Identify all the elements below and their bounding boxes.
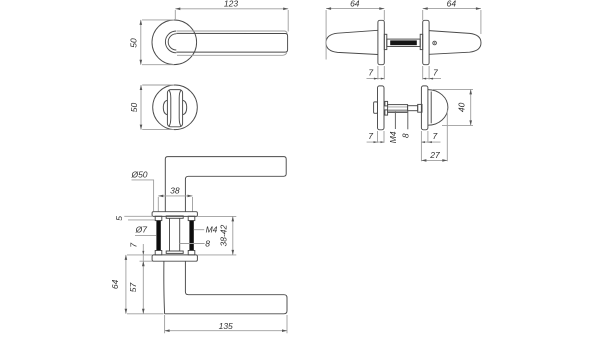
top rose plate section [152,212,197,217]
svg-text:Ø50: Ø50 [130,170,147,180]
set screw dot [433,41,437,45]
svg-text:8: 8 [400,133,410,138]
dim 7 wc left [367,131,384,143]
lever plan (top) [165,157,286,212]
svg-text:27: 27 [429,150,440,160]
label M4 (view4) [388,112,398,144]
svg-text:64: 64 [110,279,120,289]
dim 50 (lever rose) [129,20,174,65]
lever front (bottom) [164,261,287,314]
dim 50 (wc rose) [129,85,174,130]
right lever side [429,31,481,55]
dim 135 [165,315,287,333]
wc rose circle [153,85,198,130]
dim 7 wc right [421,131,440,161]
label 8 (section) [180,239,211,249]
dim 57 [128,261,145,314]
svg-text:M4: M4 [388,131,398,143]
rose circle [152,20,197,65]
svg-text:38-42: 38-42 [219,224,229,246]
emergency release tab [374,102,378,113]
bottom rose plate section [152,255,197,261]
dim 64 right [423,0,481,34]
right screw bolt [188,216,195,255]
label Ø50 [130,170,153,212]
dim 64 left [326,0,384,60]
wc right rose side [421,86,428,130]
thumbturn knob [163,90,186,127]
svg-text:64: 64 [350,0,360,8]
dim 38 [158,186,192,212]
label Ø7 [135,224,157,235]
dim 27 [421,110,447,162]
left lever side [326,30,378,54]
spindle bar [384,34,422,49]
dim 123 [175,0,288,32]
lever grip bar [176,31,287,55]
thumbturn dome [428,90,448,126]
dim 5 [114,216,155,221]
right rose side [423,20,429,64]
dim 40 [433,89,473,125]
left screw bolt [155,216,162,255]
svg-text:8: 8 [205,239,210,249]
svg-text:M4: M4 [206,224,218,234]
svg-text:7: 7 [368,67,373,77]
dim 7 left rose [367,66,385,80]
svg-text:7: 7 [433,67,438,77]
dim 38-42 [197,216,236,255]
spindle collar bottom [166,251,183,253]
svg-text:57: 57 [128,283,138,293]
svg-text:50: 50 [129,38,139,48]
spindle tube section [170,218,180,251]
dim 7 (plate) [129,243,153,266]
svg-text:123: 123 [224,0,238,8]
svg-text:7: 7 [368,131,373,141]
label 8 (view4) [400,111,410,138]
svg-text:7: 7 [129,243,139,248]
svg-text:38: 38 [170,186,180,196]
svg-text:64: 64 [447,0,457,8]
svg-text:50: 50 [129,103,139,113]
left rose side [378,20,384,64]
spindle collar top [166,216,183,218]
svg-text:7: 7 [433,131,438,141]
svg-text:Ø7: Ø7 [135,224,148,234]
svg-text:40: 40 [456,102,466,112]
svg-text:135: 135 [219,321,233,331]
lever neck collar arcs [165,31,176,53]
svg-text:5: 5 [114,216,124,221]
label M4 (section) [194,224,218,234]
dim 7 right rose [423,66,441,80]
wc left rose side [378,86,385,130]
dim 64 (section) [110,255,164,314]
spindle bolt [385,101,422,115]
